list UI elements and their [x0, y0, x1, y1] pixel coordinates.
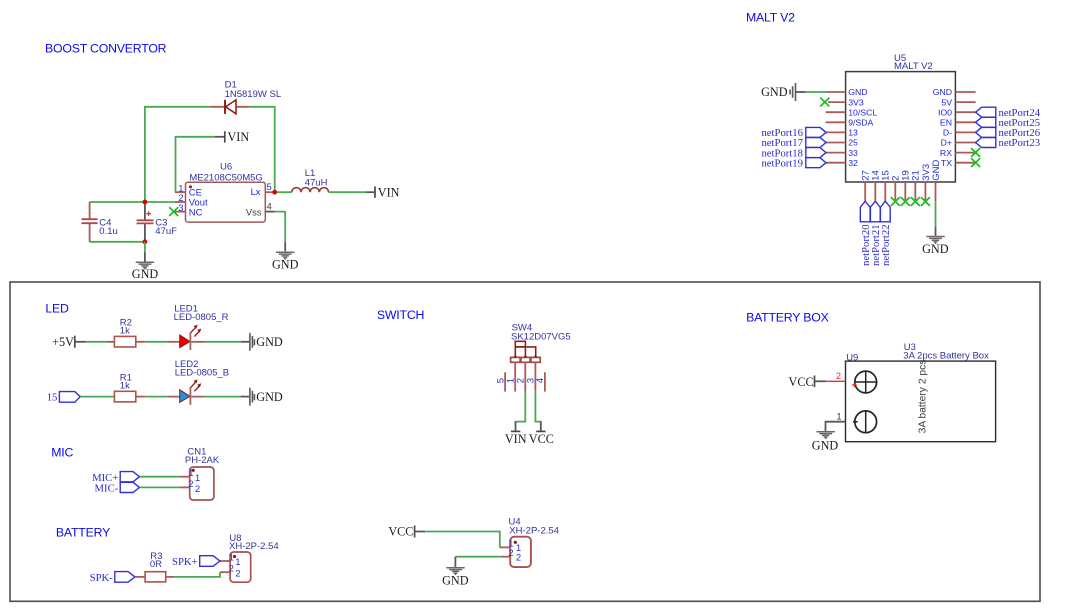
resistor R2 — [107, 336, 145, 347]
capacitor C3 polarized — [137, 202, 154, 242]
svg-text:4: 4 — [267, 202, 272, 213]
svg-text:+5V: +5V — [52, 335, 74, 349]
svg-text:Vss: Vss — [246, 206, 262, 217]
CN1 pin 1 — [180, 476, 190, 478]
wire from VIN flag to U6 pin1 CE — [176, 137, 215, 192]
net flag netPort17 — [761, 137, 826, 149]
svg-text:0.1u: 0.1u — [99, 226, 118, 237]
svg-text:GND: GND — [256, 390, 283, 404]
svg-text:0R: 0R — [150, 559, 162, 570]
power flag GND (LED1) — [241, 333, 283, 351]
svg-text:GND: GND — [256, 335, 283, 349]
LED LED2 blue — [167, 379, 205, 405]
svg-text:IO0: IO0 — [938, 107, 952, 117]
svg-text:MALT V2: MALT V2 — [894, 61, 933, 72]
svg-text:1k: 1k — [120, 380, 130, 391]
net flag 15 — [47, 392, 80, 404]
svg-text:BATTERY BOX: BATTERY BOX — [746, 311, 829, 325]
wire +5V to R2 — [86, 341, 107, 343]
net flag MIC- — [95, 482, 140, 494]
U5 pin 9/SDA — [826, 121, 846, 123]
svg-text:U6: U6 — [220, 161, 232, 172]
U4 pin 1 — [500, 546, 510, 548]
svg-text:10/SCL: 10/SCL — [848, 107, 877, 117]
inductor L1 — [292, 188, 329, 193]
svg-text:2: 2 — [229, 564, 234, 575]
battery plus terminal circle — [852, 371, 877, 394]
wire pin2 to node — [145, 201, 175, 203]
wire U4 pin2 to GND — [455, 556, 500, 558]
switch SW4 body — [511, 341, 541, 362]
net flag netPort24 — [976, 107, 1041, 119]
U5 pin GND right — [955, 91, 975, 93]
net flag netPort19 — [761, 157, 826, 169]
svg-text:2: 2 — [508, 548, 513, 559]
U9 pin 1 wire to GND — [826, 422, 846, 431]
svg-text:LED-0805_B: LED-0805_B — [175, 367, 229, 378]
svg-text:3A 2pcs Battery Box: 3A 2pcs Battery Box — [903, 351, 989, 362]
svg-text:2: 2 — [836, 371, 841, 381]
svg-text:3V3: 3V3 — [848, 97, 864, 107]
U5 bottom pin 21 — [914, 182, 916, 200]
svg-text:2: 2 — [195, 484, 200, 495]
SW4 pin 5 — [504, 372, 506, 391]
U5 pin TX — [955, 162, 975, 164]
svg-text:ME2108C50M5G: ME2108C50M5G — [189, 172, 262, 183]
no-connect X pin 21 — [911, 197, 920, 206]
connector CN1 body — [190, 467, 214, 500]
wire node to GND — [144, 242, 146, 253]
wire VCC to U9 pin 2 — [826, 380, 846, 382]
SW4 pin 4 — [544, 372, 546, 391]
resistor R1 — [114, 391, 145, 402]
wire LED1 to GND — [205, 341, 241, 343]
wire top net from C4/C3 node up to D1 — [145, 107, 210, 202]
wire R3 to U8 pin2 — [174, 572, 220, 577]
wire VCC to U4 pin1 — [425, 532, 500, 548]
resistor R3 — [135, 572, 174, 582]
svg-text:LED-0805_R: LED-0805_R — [174, 312, 229, 323]
svg-text:PH-2AK: PH-2AK — [185, 455, 220, 466]
svg-text:1: 1 — [188, 468, 193, 479]
svg-text:GND: GND — [922, 242, 949, 256]
svg-text:GND: GND — [933, 87, 952, 97]
svg-text:3A battery 2 pcs: 3A battery 2 pcs — [917, 360, 928, 434]
no-connect X on U6 pin 3 — [169, 207, 178, 216]
svg-text:15: 15 — [47, 392, 58, 404]
svg-text:1: 1 — [235, 557, 240, 568]
svg-text:MALT V2: MALT V2 — [746, 11, 795, 25]
ground (U5 bottom) — [926, 237, 944, 244]
svg-text:GND: GND — [132, 267, 159, 281]
SW4 pin 3 — [534, 362, 536, 391]
U5 pin 25 — [826, 142, 846, 144]
svg-text:5: 5 — [495, 378, 506, 383]
net flag netPort21 — [870, 201, 882, 266]
battery minus terminal circle — [853, 411, 877, 434]
battery box U3 body — [846, 361, 996, 442]
net flag netPort23 — [976, 137, 1040, 149]
svg-text:VCC: VCC — [789, 375, 814, 389]
junction node top — [143, 200, 148, 205]
ground (U4) — [446, 568, 464, 575]
svg-text:GND: GND — [442, 573, 469, 587]
net flag netPort22 — [880, 201, 892, 266]
connector U8 body — [230, 552, 251, 582]
U6 pin 5 — [265, 191, 274, 193]
svg-text:netPort19: netPort19 — [761, 157, 803, 169]
U5 bottom pin 3V3 — [924, 182, 926, 200]
net flag netPort25 — [976, 117, 1040, 129]
U6 pin 4 — [265, 211, 274, 213]
U5 bottom pin 19 — [904, 182, 906, 200]
wire node to C4 top — [90, 201, 145, 203]
U5 pin IO0 — [955, 111, 975, 113]
svg-text:13: 13 — [848, 128, 858, 138]
U6 pin 1 — [175, 191, 186, 193]
svg-text:VCC: VCC — [388, 524, 413, 538]
svg-text:2: 2 — [516, 552, 521, 563]
power flag GND (LED2) — [241, 388, 283, 406]
wire R1 to LED2 — [145, 396, 167, 398]
U5 bottom pin 2 — [894, 182, 896, 200]
svg-text:VIN: VIN — [505, 432, 527, 446]
svg-text:XH-2P-2.54: XH-2P-2.54 — [509, 525, 559, 536]
svg-text:BATTERY: BATTERY — [56, 525, 110, 539]
U8 pin 2 — [220, 571, 230, 573]
svg-text:GND: GND — [931, 160, 942, 181]
SW4 pin 2 — [524, 362, 526, 391]
svg-text:GND: GND — [761, 85, 788, 99]
no-connect X on 3V3 — [820, 98, 829, 107]
svg-text:SPK-: SPK- — [90, 572, 114, 584]
svg-text:VIN: VIN — [378, 186, 400, 200]
ground (battery) — [817, 432, 835, 439]
svg-text:33: 33 — [848, 148, 858, 158]
ground lead — [284, 242, 286, 251]
U5 pin RX — [955, 152, 975, 154]
U5 pin 32 — [826, 162, 846, 164]
svg-text:47uH: 47uH — [305, 178, 328, 189]
no-connect X pin 2 — [891, 197, 900, 206]
svg-text:MIC: MIC — [51, 446, 73, 460]
U8 pin 1 — [220, 560, 230, 562]
net flag netPort16 — [761, 127, 826, 139]
net flag SPK- — [90, 572, 135, 585]
power flag VCC (battery) — [789, 375, 826, 389]
svg-text:SWITCH: SWITCH — [377, 308, 424, 322]
U5 pin 10/SCL — [826, 111, 846, 113]
svg-text:Lx: Lx — [251, 186, 261, 197]
svg-text:32: 32 — [848, 158, 858, 168]
CN1 pin 2 — [180, 486, 190, 488]
net flag netPort18 — [761, 147, 826, 159]
U5 bottom pin GND — [935, 182, 937, 201]
power flag VCC (switch) — [529, 422, 554, 447]
wire U6 pin4 to GND — [275, 212, 286, 243]
svg-text:VIN: VIN — [228, 130, 250, 144]
U5 bottom pin 27 — [864, 182, 866, 201]
svg-text:LED: LED — [45, 301, 69, 315]
no-connect X pin 19 — [901, 197, 910, 206]
net flag netPort26 — [976, 127, 1041, 139]
IC U5 body — [846, 72, 956, 182]
wire U5 GND pin down — [935, 201, 937, 227]
svg-text:netPort23: netPort23 — [999, 137, 1041, 149]
wire from D1 cathode right side down to Lx node — [250, 107, 275, 192]
U5 bottom pin 15 — [884, 182, 886, 201]
svg-text:3: 3 — [178, 203, 183, 214]
power flag VIN (middle) — [215, 131, 225, 142]
wire LED2 to GND — [205, 396, 241, 398]
svg-text:D+: D+ — [941, 138, 952, 148]
U5 pin D+ — [955, 142, 975, 144]
net flag MIC+ — [92, 472, 139, 484]
capacitor C4 — [82, 202, 98, 242]
U5 pin 13 — [826, 131, 846, 133]
svg-text:9/SDA: 9/SDA — [848, 118, 873, 128]
no-connect X on RX — [971, 148, 980, 157]
wire SW4 pin3 to VCC — [535, 391, 540, 422]
svg-text:GND: GND — [272, 258, 299, 272]
wire SW4 pin2 to VIN — [516, 391, 526, 422]
svg-text:TX: TX — [941, 158, 952, 168]
U6 pin 2 — [175, 201, 186, 203]
svg-text:SPK+: SPK+ — [172, 556, 198, 568]
pin-1 dot U4 — [514, 541, 517, 544]
frame box lower sections — [10, 282, 1040, 601]
U5 pin D- — [955, 131, 975, 133]
svg-text:1N5819W SL: 1N5819W SL — [225, 89, 282, 100]
net flag netPort20 — [860, 201, 872, 266]
power flag +5V — [52, 335, 86, 349]
U5 pin 33 — [826, 152, 846, 154]
U4 pin 2 — [501, 556, 510, 558]
svg-text:5V: 5V — [941, 97, 952, 107]
svg-text:1: 1 — [195, 473, 200, 484]
svg-text:47uF: 47uF — [155, 226, 177, 237]
svg-text:2: 2 — [188, 479, 193, 490]
wire MIC+ to CN1 pin1 — [140, 476, 180, 478]
wire MIC- to CN1 pin2 — [140, 486, 180, 488]
diode D1 — [210, 100, 250, 114]
U5 bottom pin 14 — [874, 182, 876, 201]
U6 pin 3 — [175, 211, 186, 213]
pin-1 dot U6 — [189, 185, 192, 188]
svg-text:5: 5 — [267, 182, 272, 193]
svg-text:VCC: VCC — [529, 432, 554, 446]
power flag VIN (right) — [366, 186, 375, 197]
svg-text:1k: 1k — [120, 326, 130, 337]
junction at Lx — [272, 190, 277, 195]
svg-text:D-: D- — [943, 128, 952, 138]
svg-text:MIC-: MIC- — [95, 483, 119, 495]
U5 pin GND left — [825, 91, 845, 93]
svg-text:BOOST CONVERTOR: BOOST CONVERTOR — [45, 42, 167, 56]
svg-text:1: 1 — [229, 552, 234, 563]
svg-text:NC: NC — [189, 206, 203, 217]
ground lead — [935, 227, 937, 236]
U5 pin EN — [955, 121, 975, 123]
pin-1 dot CN1 — [192, 469, 195, 472]
svg-text:25: 25 — [848, 138, 858, 148]
power flag VCC (U4) — [388, 524, 425, 538]
connector U4 body — [510, 537, 531, 567]
no-connect X on TX — [971, 158, 980, 167]
wire C4 bottom to node — [90, 241, 145, 243]
no-connect X pin 3V3 — [921, 197, 930, 206]
U5 pin 5V — [955, 101, 975, 103]
svg-text:netPort22: netPort22 — [880, 224, 892, 266]
svg-text:EN: EN — [940, 118, 952, 128]
wire R2 to LED1 — [145, 341, 167, 343]
pin-1 dot U8 — [233, 555, 236, 558]
ground lead — [144, 253, 146, 262]
ground (C3/C4) — [136, 262, 154, 269]
SW4 pin 1 — [514, 362, 516, 391]
net flag SPK+ — [172, 556, 220, 569]
junction node bottom — [143, 239, 148, 244]
wire Lx to L1 — [277, 191, 292, 193]
svg-text:GND: GND — [812, 438, 839, 452]
svg-text:1: 1 — [837, 412, 842, 422]
svg-text:XH-2P-2.54: XH-2P-2.54 — [229, 541, 279, 552]
U5 pin 3V3 left — [828, 101, 846, 103]
ground lead — [454, 557, 456, 567]
ground (U6 Vss) — [276, 252, 294, 259]
svg-text:4: 4 — [535, 378, 546, 383]
power flag GND (left of U5) — [761, 83, 806, 101]
svg-text:2: 2 — [235, 568, 240, 579]
IC U6 body — [186, 182, 266, 222]
power flag VIN (switch) — [505, 422, 527, 447]
svg-text:GND: GND — [848, 87, 867, 97]
wire L1 to VIN flag — [329, 191, 367, 193]
LED LED1 red — [167, 325, 205, 351]
svg-text:RX: RX — [940, 148, 952, 158]
wire GND flag to U5 GND pin — [806, 91, 826, 93]
wire 15 to R1 — [80, 396, 114, 398]
